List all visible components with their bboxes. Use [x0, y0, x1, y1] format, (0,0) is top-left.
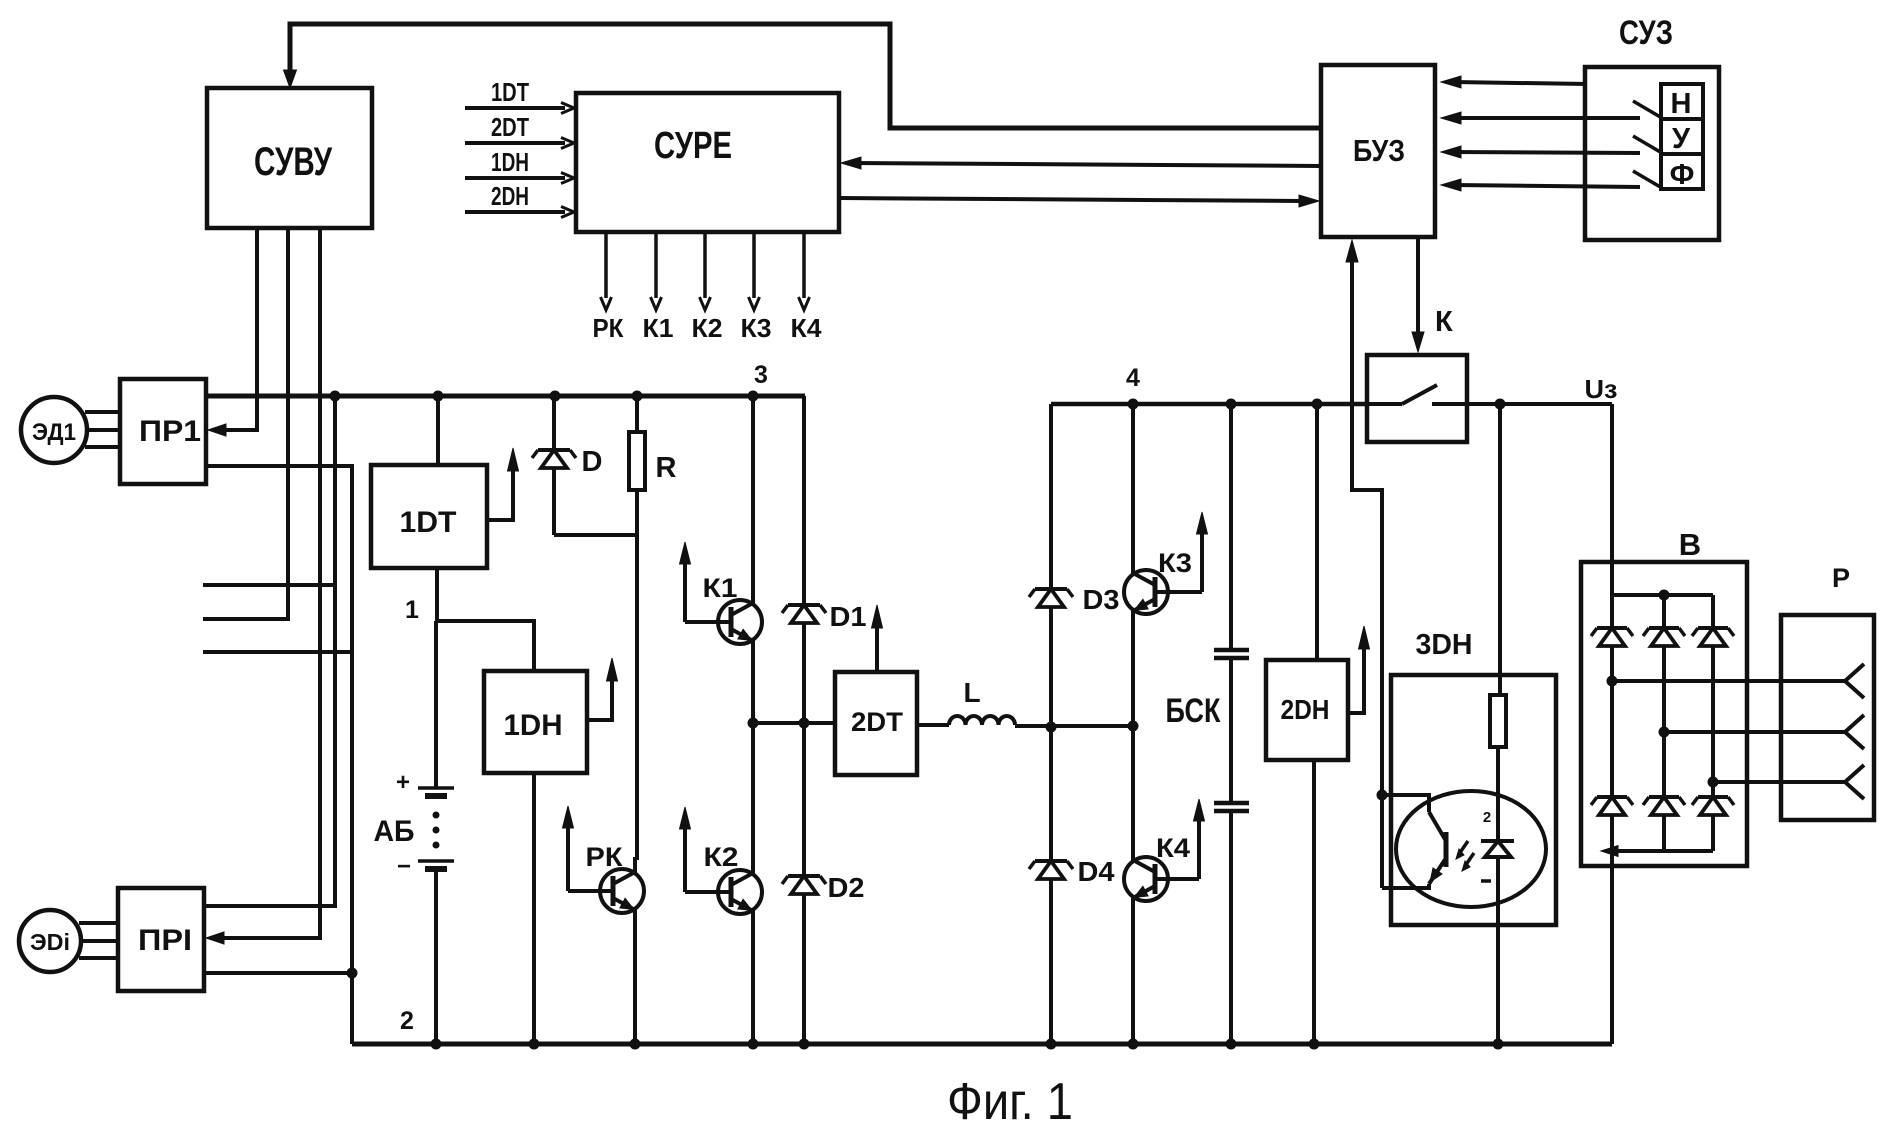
svg-text:К3: К3	[1158, 548, 1192, 578]
block PR1 (converter 1)	[120, 379, 206, 484]
phase wire 2 V to P winding	[1664, 730, 1845, 734]
wire PRI lower output to bundle	[204, 971, 352, 975]
block PRI (converter i)	[118, 888, 204, 991]
wire SURE to BUZ (arrow into BUZ)	[839, 198, 1302, 201]
wire 1DT bottom to node 1	[435, 568, 439, 621]
wire switch U to BUZ	[1453, 152, 1640, 153]
wire K1 emitter down to mid rail	[751, 653, 755, 723]
2DH output arrow up	[1348, 646, 1364, 713]
wire horizontal stub upper	[203, 583, 336, 587]
svg-text:СУРЕ: СУРЕ	[654, 125, 732, 167]
capacitor C lower	[1214, 801, 1249, 806]
svg-text:L: L	[963, 677, 980, 708]
svg-text:1DH: 1DH	[504, 709, 563, 742]
svg-text:2DH: 2DH	[491, 181, 529, 211]
wire mid node to 2DT input	[753, 721, 835, 725]
wire switch N to BUZ	[1453, 116, 1640, 120]
svg-text:У: У	[1672, 123, 1691, 155]
phototransistor in 3DH	[1444, 832, 1449, 867]
output К2 from SURE bottom	[703, 232, 707, 298]
block SUVU (control system)	[207, 88, 372, 228]
wire SUVU output 2 down, left to open end	[203, 228, 288, 619]
wire K1/D1 rail down to K2	[751, 723, 755, 861]
wire bus3 down to D1	[802, 396, 806, 605]
wire: feedback from BUZ left edge to SUVU top	[290, 24, 1321, 128]
switch cells box N U F	[1661, 84, 1703, 189]
1DH output arrow up	[587, 678, 612, 720]
V diode bottom row 3	[1698, 795, 1728, 799]
wire bus4 corner down to D3	[1049, 404, 1053, 589]
svg-text:РК: РК	[586, 842, 624, 872]
diode D3	[1035, 587, 1067, 591]
transistor K4 (mirrored)	[1124, 857, 1168, 901]
block BUZ (excitation control)	[1321, 65, 1435, 237]
wire 1DH bottom to bus 2	[532, 773, 536, 1044]
wire K box to Uz corner into rectifier V	[1467, 402, 1612, 406]
diode D1	[788, 603, 820, 607]
V diode top row 1	[1597, 626, 1627, 630]
wire K4 emitter to bus 2	[1131, 910, 1135, 1044]
wire 2DT to inductor L	[917, 723, 949, 727]
V diode top row 2	[1649, 626, 1679, 630]
wire L node down to D4	[1049, 727, 1053, 861]
wire LED down to bus 2	[1496, 857, 1500, 1044]
svg-text:Н: Н	[1671, 88, 1692, 120]
V diode bottom row 1	[1597, 795, 1627, 799]
diode D4	[1035, 859, 1067, 863]
wire K2 emitter to bus 2	[751, 923, 755, 1044]
svg-text:ПР1: ПР1	[139, 415, 201, 448]
transistor K3 (mirrored)	[1124, 570, 1168, 614]
node 2 bus (lower DC bus)	[352, 1042, 1612, 1047]
svg-text:ЭDi: ЭDi	[30, 929, 70, 955]
svg-text:D4: D4	[1078, 856, 1115, 887]
wire 2DH bottom to bus 2	[1312, 760, 1316, 1044]
V top internal bus	[1612, 593, 1713, 597]
wire BUZ down to switch K (arrow down)	[1416, 237, 1420, 334]
wire BUZ to SURE (arrow into SURE)	[852, 163, 1321, 166]
transistor K2	[718, 870, 762, 914]
node 1 wire to 1DH top	[436, 621, 534, 671]
svg-text:К1: К1	[703, 573, 738, 603]
wire L to node with D3/K3 rails	[1015, 724, 1133, 728]
svg-text:К3: К3	[741, 313, 772, 343]
wire V negative rail down to bus 2	[1610, 851, 1614, 1044]
2DT output arrow up	[875, 625, 879, 672]
svg-text:БСК: БСК	[1166, 692, 1221, 730]
photo arrows (light symbol)	[1459, 841, 1468, 854]
svg-text:СУЗ: СУЗ	[1619, 14, 1673, 52]
battery AB cells	[434, 621, 438, 788]
svg-text:2DT: 2DT	[491, 112, 529, 142]
svg-text:2DT: 2DT	[851, 707, 904, 737]
svg-text:2: 2	[400, 1007, 414, 1035]
resistor R	[635, 396, 639, 432]
block 1DH (voltage sensor 1)	[484, 671, 587, 773]
block 2DT (current sensor 2)	[835, 672, 917, 775]
wire PK emitter down to bus 2	[633, 922, 637, 1044]
wire K3 emitter down to L node	[1131, 623, 1135, 726]
svg-text:−: −	[397, 853, 411, 880]
output РК from SURE bottom	[604, 232, 608, 298]
1DT output arrow up	[487, 468, 513, 520]
V diode bottom row 2	[1649, 795, 1679, 799]
svg-text:К1: К1	[643, 313, 674, 343]
svg-text:Uз: Uз	[1585, 374, 1618, 404]
svg-text:1DH: 1DH	[491, 147, 529, 177]
svg-text:1DT: 1DT	[491, 77, 529, 107]
switch K box	[1367, 355, 1467, 442]
svg-text:2: 2	[1483, 809, 1491, 826]
wire D1 rail down to D2	[802, 723, 806, 876]
svg-text:К4: К4	[791, 313, 823, 343]
wire SUVU output 1 down into PR1 (arrow)	[226, 228, 257, 430]
wire from 3DH phototransistor up into BUZ (arrow up)	[1352, 258, 1382, 888]
wire PRI top output up to bus 3	[204, 396, 335, 906]
svg-text:Фиг. 1: Фиг. 1	[947, 1073, 1073, 1131]
V rails to phase taps	[1610, 646, 1614, 797]
inductor L (4 arcs)	[949, 716, 1015, 725]
input 1DH into SURE	[465, 176, 565, 180]
wire D bottom to R rail	[554, 533, 637, 537]
svg-text:ПРI: ПРI	[138, 924, 192, 957]
wire bus3 to 1DT top	[436, 396, 440, 465]
motor EDi (circle)	[19, 910, 81, 972]
svg-text:В: В	[1679, 527, 1701, 562]
svg-text:R: R	[656, 452, 677, 484]
svg-text:4: 4	[1126, 364, 1140, 392]
V bottom internal bus with arrow	[1610, 815, 1614, 851]
svg-text:К: К	[1435, 306, 1453, 338]
pin 1 mark	[1481, 879, 1491, 883]
block SURE (regulator)	[576, 93, 839, 232]
svg-text:3: 3	[754, 361, 768, 389]
wire emitter to BUZ rail corner	[1382, 884, 1429, 888]
wire bus3 down to K1 collector	[751, 396, 755, 591]
svg-text:3DH: 3DH	[1416, 629, 1473, 661]
diode D2	[788, 874, 820, 878]
transistor K1	[718, 600, 762, 644]
optocoupler ellipse	[1396, 791, 1546, 907]
svg-text:D1: D1	[830, 601, 867, 632]
wire SUZ to BUZ line 1	[1453, 82, 1587, 84]
wire R down to PK transistor	[635, 490, 639, 860]
block 2DH (voltage sensor 2)	[1266, 660, 1348, 760]
svg-text:Ф: Ф	[1670, 159, 1695, 191]
winding chevron 3	[1845, 765, 1864, 782]
switch K blade	[1367, 402, 1402, 406]
svg-text:СУВУ: СУВУ	[254, 140, 333, 184]
output К3 from SURE bottom	[752, 232, 756, 298]
node 4 bus	[1051, 402, 1367, 407]
winding chevron 1	[1845, 664, 1864, 681]
wires EDi to PRI	[79, 921, 118, 925]
output К4 from SURE bottom	[802, 232, 806, 298]
diode D	[552, 396, 556, 450]
input 2DT into SURE	[465, 141, 565, 145]
motor ED1 (circle)	[21, 397, 87, 463]
svg-text:К2: К2	[692, 313, 723, 343]
wire switch F to BUZ	[1453, 185, 1640, 187]
V diode column rails	[1610, 595, 1614, 628]
svg-text:1: 1	[405, 596, 419, 624]
wires ED1 to PR1	[85, 410, 120, 414]
input 1DT into SURE	[465, 106, 565, 110]
input 2DH into SURE	[465, 210, 565, 214]
wire bus4 to 2DH top	[1315, 404, 1319, 660]
LED in 3DH	[1481, 839, 1514, 843]
svg-text:+: +	[396, 769, 410, 796]
wire Uz node down to 3DH resistor	[1498, 404, 1502, 695]
block 1DT (current sensor 1)	[371, 465, 487, 568]
wire L node down to K4 collector	[1131, 726, 1135, 848]
output К1 from SURE bottom	[654, 232, 658, 298]
wire Uz down into V box	[1610, 404, 1614, 598]
svg-text:Р: Р	[1832, 563, 1850, 593]
svg-text:БУЗ: БУЗ	[1353, 133, 1405, 168]
phase wire 3 V to P winding	[1713, 780, 1845, 784]
svg-text:РК: РК	[593, 313, 624, 343]
svg-text:К4: К4	[1156, 833, 1190, 863]
wire SUVU output 3 down into PRI (arrow)	[224, 228, 320, 938]
wire horizontal stub lower	[203, 650, 352, 654]
node 3 bus (upper DC bus)	[206, 394, 805, 399]
svg-text:ЭД1: ЭД1	[32, 419, 76, 446]
svg-text:2DH: 2DH	[1281, 694, 1330, 725]
svg-text:АБ: АБ	[374, 815, 415, 848]
V diode top row 3	[1698, 626, 1728, 630]
wire collector to BUZ rail	[1382, 795, 1429, 812]
svg-text:D: D	[582, 446, 603, 478]
transistor PK (discharge)	[600, 869, 644, 913]
wire PR1 bottom output down the bundle to bus 2	[206, 466, 352, 1044]
node Uz junction to 3DH resistor	[1495, 399, 1505, 409]
svg-text:К2: К2	[704, 842, 739, 872]
resistor in 3DH	[1490, 695, 1506, 747]
svg-text:D2: D2	[828, 872, 865, 903]
svg-text:D3: D3	[1083, 584, 1120, 615]
capacitor C upper	[1229, 404, 1233, 650]
winding chevron 2	[1845, 715, 1864, 732]
phase wire 1 V to P winding	[1612, 679, 1845, 683]
wire bus4 down to K3 collector	[1131, 404, 1135, 561]
svg-text:1DT: 1DT	[400, 506, 457, 539]
